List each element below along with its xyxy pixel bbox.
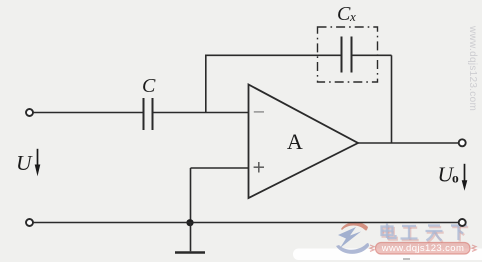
junction dot (186, 219, 193, 226)
output terminal bottom (459, 219, 466, 226)
svg-text:A: A (287, 129, 303, 154)
watermark white band (293, 249, 482, 261)
wire: feedback top horizontal (205, 54, 341, 56)
wire: plus input (191, 167, 249, 169)
output terminal top (459, 139, 466, 146)
op-amp A (249, 85, 359, 199)
svg-text:U: U (16, 151, 33, 175)
svg-text:o: o (452, 171, 459, 186)
svg-text:C: C (142, 75, 156, 97)
dash-dot box around Cx (318, 27, 378, 82)
svg-text:www.dqjs123.com: www.dqjs123.com (381, 243, 465, 254)
small gray dash bottom (403, 258, 410, 260)
input terminal top (26, 109, 33, 116)
wire: feedback right vertical (391, 55, 393, 143)
op-amp minus sign (254, 111, 264, 113)
watermark red url box (370, 243, 476, 255)
ground (175, 223, 205, 253)
svg-text:C: C (337, 3, 351, 25)
capacitor Cx (342, 37, 352, 73)
input terminal bottom (26, 219, 33, 226)
wire: bottom rail (33, 222, 459, 224)
arrow U down (35, 149, 41, 176)
wire: plus input vertical to rail (190, 168, 192, 223)
arrow Uo down (462, 164, 468, 191)
svg-text:x: x (349, 9, 356, 24)
wire: feedback tap vertical (205, 55, 207, 112)
wire: C to op-amp minus input (153, 112, 249, 114)
capacitor C (144, 98, 153, 130)
watermark logo swirl (336, 222, 369, 254)
svg-text:www.dqjs123.com: www.dqjs123.com (467, 25, 478, 111)
op-amp plus sign (254, 162, 264, 173)
wire: input line (33, 112, 144, 114)
watermark text dian gong tian xia (383, 225, 469, 242)
wire: output (358, 142, 459, 144)
wire: Cx to right vertical (352, 54, 392, 56)
